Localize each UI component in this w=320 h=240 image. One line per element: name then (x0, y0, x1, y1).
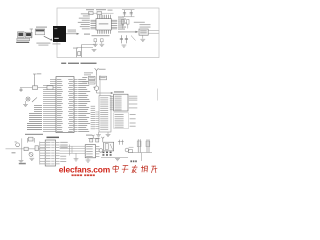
op IC U1 CP2102 QFP body (96, 19, 111, 30)
R4 value label (82, 76, 87, 79)
wire bus (6, 148, 46, 150)
arrow to USB module (44, 36, 52, 40)
C1 value label (86, 9, 94, 10)
IC U4 body (45, 140, 55, 166)
figure-1 caption text (81, 63, 97, 64)
transistor Q4 (99, 149, 103, 153)
Y3 side caps (28, 138, 35, 143)
net label (84, 71, 93, 74)
wire (77, 47, 93, 49)
capacitor C7 (120, 35, 123, 43)
wire (122, 16, 135, 18)
U2 left pins (43, 79, 56, 131)
transistor Q3 (29, 152, 33, 156)
net label (84, 73, 91, 76)
label dashes (130, 160, 136, 162)
resistor R9 (128, 150, 132, 153)
capacitor C8 (125, 35, 128, 43)
wire (30, 29, 32, 39)
resistor R3 (127, 20, 129, 25)
ground (122, 45, 127, 47)
ground (115, 159, 120, 161)
C16 body (146, 141, 150, 147)
electrolytic capacitor C6 (130, 10, 133, 16)
cable label text (68, 30, 77, 33)
device label text (36, 27, 47, 28)
VCC stub (92, 135, 94, 139)
PC label text (16, 42, 29, 43)
U5 right stubs (96, 146, 100, 156)
ground (23, 105, 28, 107)
wire top rail (90, 12, 114, 14)
IC U5 body (85, 145, 95, 158)
wire (128, 152, 152, 154)
capacitor C4 (101, 39, 104, 42)
U1 bottom net labels (92, 35, 110, 36)
J3 row labels (100, 97, 108, 129)
capacitor C12 (90, 139, 93, 142)
wire (98, 132, 100, 134)
VCC net label (99, 68, 106, 71)
capacitor C2 (97, 12, 102, 15)
wire (75, 153, 77, 158)
option label text (140, 26, 151, 29)
wire (96, 75, 98, 86)
printer device (35, 29, 45, 35)
svg-text:elecfans.com: elecfans.com (59, 165, 110, 175)
ground (29, 158, 34, 160)
J3 left stubs (95, 112, 99, 129)
VCC label (37, 72, 42, 75)
U3 pin name labels (115, 96, 122, 110)
capacitor C9 (47, 86, 53, 90)
power select wire with arrow (118, 31, 137, 33)
U4 right pins (56, 142, 60, 164)
ground (99, 44, 104, 46)
U3 right net labels (129, 96, 138, 109)
IC U3 body (114, 94, 128, 111)
PC system unit (25, 32, 32, 37)
transistor Q2 (94, 86, 98, 90)
label text (86, 135, 92, 136)
U1 right pin labels (118, 17, 127, 30)
option label text (134, 21, 145, 24)
capacitor C1 (89, 12, 94, 15)
U2 right pins (74, 79, 78, 131)
U2/U4 part number label (47, 137, 60, 139)
ground (96, 135, 101, 137)
VCC symbol right (95, 68, 99, 75)
caption text (36, 43, 50, 44)
net label (12, 152, 16, 153)
wire with arrow (97, 92, 113, 94)
U2 left outside net labels (27, 105, 42, 130)
capacitor C10 (19, 88, 22, 92)
slogan text (72, 174, 95, 176)
C2 value label (96, 9, 106, 10)
ground (93, 44, 98, 46)
crystal Y2 (32, 86, 37, 90)
connector table below U3 (114, 113, 129, 129)
U1 right pins (111, 20, 117, 29)
connector J2 (139, 29, 148, 35)
ground (86, 160, 91, 162)
connector header J3 (tall) (99, 96, 111, 132)
wire (87, 158, 89, 160)
ground (106, 134, 111, 136)
wire (69, 145, 71, 156)
wire right edge (157, 89, 159, 101)
wire (20, 87, 43, 89)
wires U4 to U5 (60, 146, 86, 153)
red Chinese watermark (112, 165, 157, 173)
arrow wire USB cable (66, 33, 79, 35)
U1 part label (99, 23, 109, 24)
wire (21, 138, 23, 160)
figure-1 caption text (68, 63, 79, 64)
wire (122, 9, 135, 11)
wire (25, 101, 27, 104)
capacitor C13 (96, 139, 99, 142)
IC U2 (MCU) body (56, 77, 74, 133)
relay K1 (104, 142, 114, 151)
VCC symbol (33, 74, 36, 86)
U2 right net labels (78, 79, 90, 132)
wire (32, 97, 37, 102)
U2 right pin name labels (inside) (68, 79, 73, 132)
U1 left pin labels (78, 13, 90, 29)
U3 part label (114, 91, 124, 92)
capacitor C14 (118, 140, 124, 145)
wire (88, 137, 100, 139)
electrolytic capacitor C15 (138, 139, 140, 152)
ground (140, 39, 145, 41)
wire (82, 44, 96, 46)
wire to frame (148, 32, 159, 34)
K1 coil (105, 144, 108, 150)
U4 left pins (40, 142, 45, 164)
resistor R8 (35, 146, 38, 151)
Y1 value label (73, 47, 78, 50)
PC monitor (18, 32, 25, 38)
K1 contact (110, 144, 112, 150)
VCC stub (101, 137, 104, 142)
crystal Y1 on frame edge (77, 45, 82, 58)
wire (142, 35, 144, 38)
wire (107, 132, 109, 134)
ground (92, 50, 97, 52)
electrolytic capacitor C5 (123, 10, 126, 16)
terminal dots (102, 152, 111, 156)
wire to frame (148, 30, 159, 32)
ground (74, 159, 79, 161)
USB module (black) (53, 26, 66, 42)
U1 top pins (97, 15, 110, 19)
wire (122, 24, 124, 28)
net label text (19, 163, 26, 165)
electrolytic capacitor C11 (16, 143, 20, 147)
resistor R4 (89, 76, 96, 79)
resistor R5 (89, 81, 96, 84)
resistor R7 (24, 147, 28, 151)
wire (29, 153, 33, 157)
figure-1 border frame (57, 8, 159, 58)
resistor R6 (100, 76, 107, 80)
wire (101, 157, 128, 159)
caption text (38, 45, 48, 46)
transistor Q1 (26, 97, 30, 101)
wire (127, 24, 129, 28)
R1 value label (108, 10, 113, 11)
resistor R2 (122, 20, 124, 25)
U4 pin labels (46, 142, 55, 164)
wire (141, 153, 143, 161)
figure-1 caption text (61, 63, 66, 64)
wire VCC to J3 (99, 75, 101, 95)
U3 left pins (110, 96, 114, 110)
PC keyboard (17, 38, 30, 40)
option label text (140, 23, 151, 26)
wire (131, 36, 136, 41)
U2 left pin name labels (57, 79, 63, 132)
ground (19, 161, 24, 163)
U1 bottom pins (97, 30, 110, 34)
electrolytic capacitor C16 (147, 139, 149, 152)
table right labels (130, 114, 136, 126)
wire (94, 42, 96, 44)
R5 value label (82, 80, 87, 83)
wire (129, 146, 134, 148)
U4 right net labels (60, 142, 67, 162)
net label row (25, 134, 43, 135)
wire (101, 42, 103, 44)
second net-label column (91, 106, 96, 129)
cable label text (68, 29, 77, 32)
U1 left pins (91, 20, 97, 29)
module label text (53, 43, 61, 44)
transistor Q5 (125, 148, 129, 152)
C15 body (137, 141, 141, 147)
crystal Y3 (28, 137, 33, 141)
capacitor C3 (94, 39, 97, 42)
wire (30, 28, 33, 30)
wire bus left of U4 (39, 142, 41, 165)
net label (84, 34, 90, 35)
